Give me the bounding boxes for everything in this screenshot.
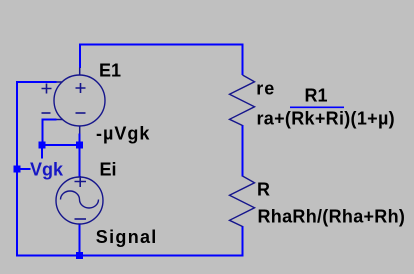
svg-text:RhaRh/(Rha+Rh): RhaRh/(Rha+Rh): [258, 207, 406, 227]
wire Ei bottom to rail: [79, 224, 81, 257]
Ei internal plus: [75, 176, 87, 187]
signal source Ei body: [56, 177, 103, 224]
svg-text:-µVgk: -µVgk: [96, 124, 150, 144]
wire right rail between resistors: [242, 125, 244, 177]
svg-text:Ei: Ei: [100, 160, 117, 180]
svg-text:R: R: [257, 180, 270, 200]
wire stub below junction: [41, 148, 43, 159]
svg-text:Signal: Signal: [96, 227, 158, 247]
wire E1 bottom to Ei top: [79, 134, 81, 178]
junction A (control drop / cathode link): [39, 142, 46, 149]
E1 internal minus: [76, 112, 86, 114]
resistor R zigzag: [230, 176, 255, 227]
wire Vgk label stub: [17, 168, 31, 170]
resistor re zigzag: [230, 75, 255, 126]
wire junction link to E1 cathode node: [43, 144, 80, 146]
Ei sine wave: [61, 191, 99, 208]
E1 control plus: [42, 84, 52, 94]
svg-text:Vgk: Vgk: [30, 160, 64, 180]
svg-text:E1: E1: [99, 60, 121, 80]
wire top rail with drops to E1 and re: [80, 45, 243, 76]
E1 top pin: [79, 68, 81, 76]
E1 control minus: [42, 112, 51, 114]
E1 control pin stubs: [56, 82, 64, 120]
wire bottom rail, left rail and control + stub: [17, 82, 243, 256]
junction B (cathode node on E1-Ei wire): [76, 142, 83, 149]
E1 bottom pin: [79, 126, 81, 135]
fraction bar under R1: [290, 106, 344, 108]
wire E1 minus-control stub and drop: [43, 120, 57, 146]
svg-text:re: re: [256, 79, 275, 99]
controlled source E1 body: [54, 75, 105, 126]
junction C (bottom rail at Ei): [76, 252, 83, 259]
svg-text:ra+(Rk+Ri)(1+µ): ra+(Rk+Ri)(1+µ): [257, 109, 395, 129]
Ei internal minus: [75, 218, 87, 220]
junction D (Vgk tap on left rail): [14, 166, 21, 173]
E1 internal plus: [76, 83, 86, 93]
svg-text:R1: R1: [305, 86, 328, 106]
